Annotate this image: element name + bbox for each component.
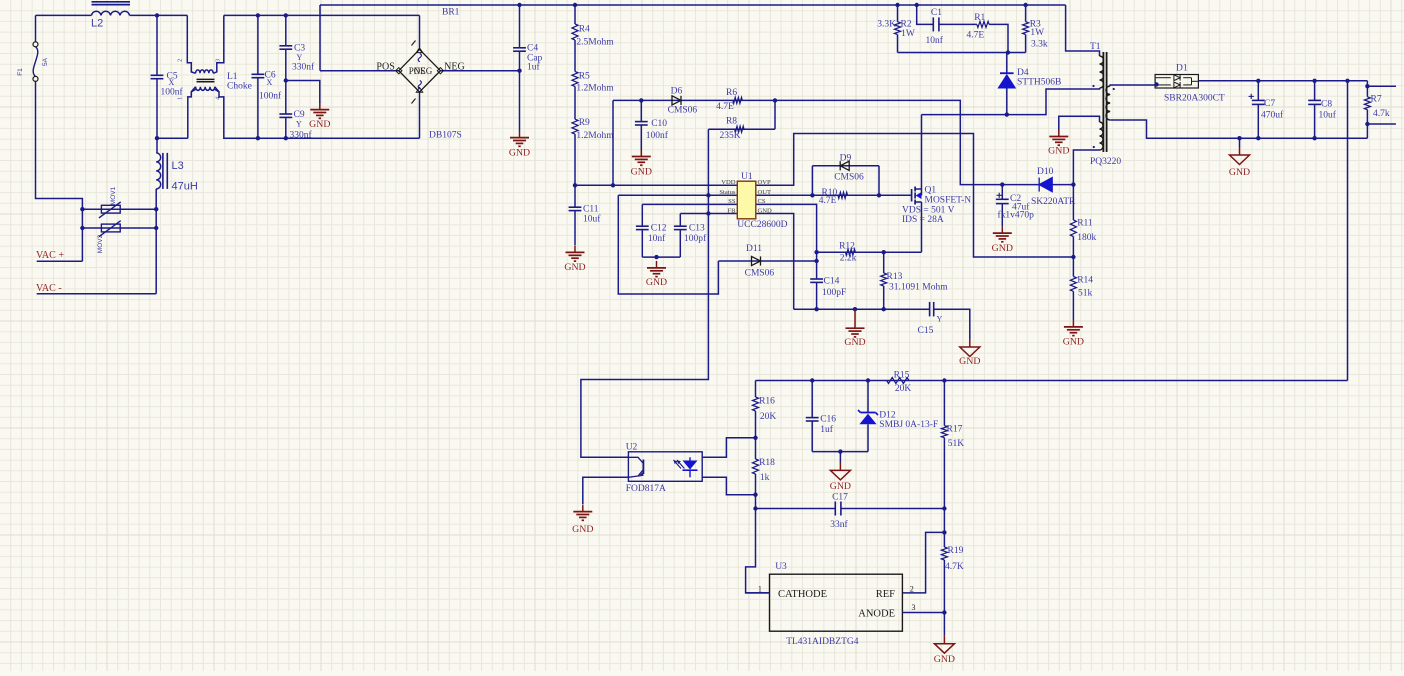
svg-text:2: 2	[178, 59, 184, 62]
svg-text:MOV1: MOV1	[110, 186, 117, 205]
svg-text:F1: F1	[17, 68, 24, 76]
svg-text:5A: 5A	[42, 57, 49, 66]
svg-text:GND: GND	[758, 207, 773, 214]
svg-text:C11: C11	[583, 205, 599, 215]
svg-text:VAC -: VAC -	[36, 283, 62, 294]
svg-text:C17: C17	[832, 492, 848, 502]
svg-text:L1: L1	[227, 72, 238, 82]
svg-text:C15: C15	[918, 326, 934, 336]
svg-text:3: 3	[216, 59, 222, 62]
svg-text:180k: 180k	[1077, 233, 1096, 243]
svg-text:C14: C14	[824, 277, 840, 287]
svg-text:R11: R11	[1077, 218, 1093, 228]
svg-text:R13: R13	[887, 272, 903, 282]
svg-text:VDS = 501 V: VDS = 501 V	[902, 206, 955, 216]
svg-text:TL431AIDBZTG4: TL431AIDBZTG4	[786, 637, 859, 647]
svg-text:3.3K: 3.3K	[877, 20, 896, 30]
svg-text:D10: D10	[1037, 167, 1054, 177]
svg-text:Y: Y	[297, 53, 303, 62]
svg-text:D12: D12	[879, 411, 896, 421]
svg-text:D11: D11	[746, 244, 762, 254]
svg-text:R18: R18	[759, 458, 775, 468]
svg-text:R15: R15	[894, 371, 910, 381]
svg-text:UCC28600D: UCC28600D	[737, 220, 787, 230]
svg-text:Choke: Choke	[227, 82, 252, 92]
svg-text:GND: GND	[564, 262, 585, 273]
svg-text:31.1091 Mohm: 31.1091 Mohm	[889, 282, 948, 292]
svg-text:100pF: 100pF	[822, 288, 846, 298]
svg-text:C10: C10	[651, 119, 667, 129]
svg-text:R7: R7	[1371, 95, 1382, 105]
svg-text:1: 1	[758, 584, 762, 593]
svg-text:SBR20A300CT: SBR20A300CT	[1164, 93, 1225, 103]
svg-text:R12: R12	[839, 241, 855, 251]
svg-text:C7: C7	[1264, 99, 1275, 109]
svg-text:X: X	[267, 78, 273, 87]
svg-text:SS: SS	[728, 198, 736, 205]
svg-text:GND: GND	[631, 167, 652, 178]
svg-text:NEG: NEG	[444, 62, 465, 73]
svg-text:1uf: 1uf	[820, 424, 834, 435]
svg-text:C9: C9	[294, 110, 305, 120]
svg-text:GND: GND	[830, 481, 851, 492]
svg-text:U3: U3	[775, 562, 787, 572]
svg-text:GND: GND	[959, 356, 980, 367]
svg-text:R9: R9	[579, 118, 590, 128]
svg-text:D4: D4	[1017, 68, 1029, 78]
svg-text:1uf: 1uf	[527, 62, 541, 73]
svg-text:51K: 51K	[948, 439, 965, 449]
svg-text:GND: GND	[509, 148, 530, 159]
svg-text:U1: U1	[741, 172, 753, 182]
svg-text:GND: GND	[992, 243, 1013, 254]
svg-text:51k: 51k	[1078, 289, 1093, 299]
svg-text:1W: 1W	[1030, 28, 1044, 38]
svg-text:C1: C1	[931, 8, 942, 18]
svg-text:20K: 20K	[760, 412, 777, 422]
svg-text:1.2Mohm: 1.2Mohm	[576, 131, 614, 141]
svg-text:C4: C4	[527, 44, 538, 54]
svg-text:4.7K: 4.7K	[945, 562, 964, 572]
svg-text:R17: R17	[947, 424, 963, 434]
svg-text:IDS = 28A: IDS = 28A	[902, 215, 944, 225]
svg-text:20K: 20K	[895, 384, 912, 394]
svg-text:1.2Mohm: 1.2Mohm	[576, 83, 614, 93]
svg-text:fk1v470p: fk1v470p	[998, 210, 1035, 221]
svg-text:C3: C3	[294, 44, 305, 54]
svg-text:GND: GND	[1229, 167, 1250, 178]
svg-text:10uf: 10uf	[1319, 110, 1337, 121]
svg-text:POS: POS	[376, 62, 394, 73]
svg-text:D6: D6	[671, 87, 683, 97]
svg-text:2.2k: 2.2k	[840, 253, 857, 263]
svg-text:R19: R19	[948, 546, 964, 556]
svg-text:100nf: 100nf	[161, 87, 184, 98]
svg-text:CMS06: CMS06	[745, 269, 775, 279]
svg-text:33nf: 33nf	[830, 519, 848, 530]
svg-text:100nf: 100nf	[259, 91, 282, 102]
svg-text:10nf: 10nf	[926, 35, 944, 46]
svg-text:X: X	[169, 78, 175, 87]
svg-text:R14: R14	[1077, 276, 1093, 286]
svg-text:MOV2: MOV2	[97, 234, 104, 253]
svg-text:REF: REF	[876, 589, 895, 600]
svg-text:C12: C12	[651, 224, 667, 234]
svg-text:VAC +: VAC +	[36, 250, 64, 261]
svg-text:C13: C13	[689, 224, 705, 234]
svg-text:Q1: Q1	[925, 186, 937, 196]
svg-text:CMS06: CMS06	[668, 105, 698, 115]
svg-text:GND: GND	[1048, 146, 1069, 157]
svg-text:SMBJ 0A-13-F: SMBJ 0A-13-F	[879, 420, 938, 430]
svg-text:R16: R16	[759, 396, 775, 406]
svg-text:R6: R6	[726, 88, 737, 98]
svg-text:4.7E: 4.7E	[716, 102, 734, 112]
svg-text:CS: CS	[758, 198, 766, 205]
svg-text:235K: 235K	[719, 131, 740, 141]
svg-text:330nf: 330nf	[290, 129, 313, 140]
svg-text:1k: 1k	[760, 473, 770, 483]
svg-text:100pf: 100pf	[684, 233, 707, 244]
svg-text:C8: C8	[1321, 100, 1332, 110]
svg-text:2.5Mohm: 2.5Mohm	[576, 38, 614, 48]
svg-text:NEG: NEG	[414, 66, 433, 76]
svg-text:C16: C16	[820, 415, 836, 425]
svg-text:VDD: VDD	[721, 179, 736, 186]
svg-text:BR1: BR1	[442, 8, 460, 18]
svg-text:GND: GND	[309, 119, 330, 130]
svg-text:OVP: OVP	[758, 179, 772, 186]
svg-text:4.7E: 4.7E	[967, 31, 985, 41]
svg-text:R4: R4	[579, 24, 590, 34]
svg-text:Status: Status	[719, 189, 736, 196]
svg-text:330nf: 330nf	[292, 62, 315, 73]
svg-text:FB: FB	[727, 207, 736, 214]
svg-text:OUT: OUT	[758, 189, 772, 196]
svg-text:Y: Y	[937, 315, 943, 324]
svg-text:ANODE: ANODE	[858, 608, 895, 619]
svg-text:MOSFET-N: MOSFET-N	[925, 195, 972, 205]
svg-text:R1: R1	[974, 13, 985, 23]
svg-text:FOD817A: FOD817A	[626, 484, 666, 494]
svg-text:U2: U2	[626, 443, 638, 453]
svg-text:DB107S: DB107S	[429, 130, 462, 140]
svg-text:GND: GND	[934, 654, 955, 665]
svg-text:100nf: 100nf	[646, 130, 669, 141]
svg-text:PQ3220: PQ3220	[1090, 157, 1121, 167]
svg-text:470uf: 470uf	[1261, 110, 1284, 121]
svg-text:2: 2	[910, 584, 914, 593]
svg-text:CMS06: CMS06	[834, 172, 864, 182]
svg-text:Y: Y	[296, 120, 302, 129]
svg-text:10nf: 10nf	[648, 233, 666, 244]
svg-text:GND: GND	[572, 524, 593, 535]
svg-text:4.7k: 4.7k	[1373, 109, 1390, 119]
svg-text:T1: T1	[1090, 42, 1101, 52]
svg-text:R5: R5	[579, 71, 590, 81]
svg-text:1W: 1W	[901, 29, 915, 39]
svg-text:3: 3	[912, 603, 916, 612]
svg-text:3.3k: 3.3k	[1031, 39, 1048, 49]
svg-text:GND: GND	[1063, 337, 1084, 348]
svg-text:D9: D9	[840, 153, 852, 163]
svg-text:CATHODE: CATHODE	[778, 589, 827, 600]
svg-text:SK220ATR: SK220ATR	[1031, 197, 1076, 207]
svg-text:R8: R8	[726, 117, 737, 127]
svg-text:GND: GND	[646, 277, 667, 288]
svg-text:L2: L2	[91, 18, 103, 30]
svg-text:47uH: 47uH	[172, 181, 198, 193]
svg-text:4.7E: 4.7E	[819, 196, 837, 206]
svg-text:GND: GND	[844, 337, 865, 348]
svg-text:STTH506B: STTH506B	[1017, 78, 1061, 88]
svg-text:D1: D1	[1176, 64, 1188, 74]
svg-text:L3: L3	[172, 160, 184, 172]
svg-text:10uf: 10uf	[583, 213, 601, 224]
